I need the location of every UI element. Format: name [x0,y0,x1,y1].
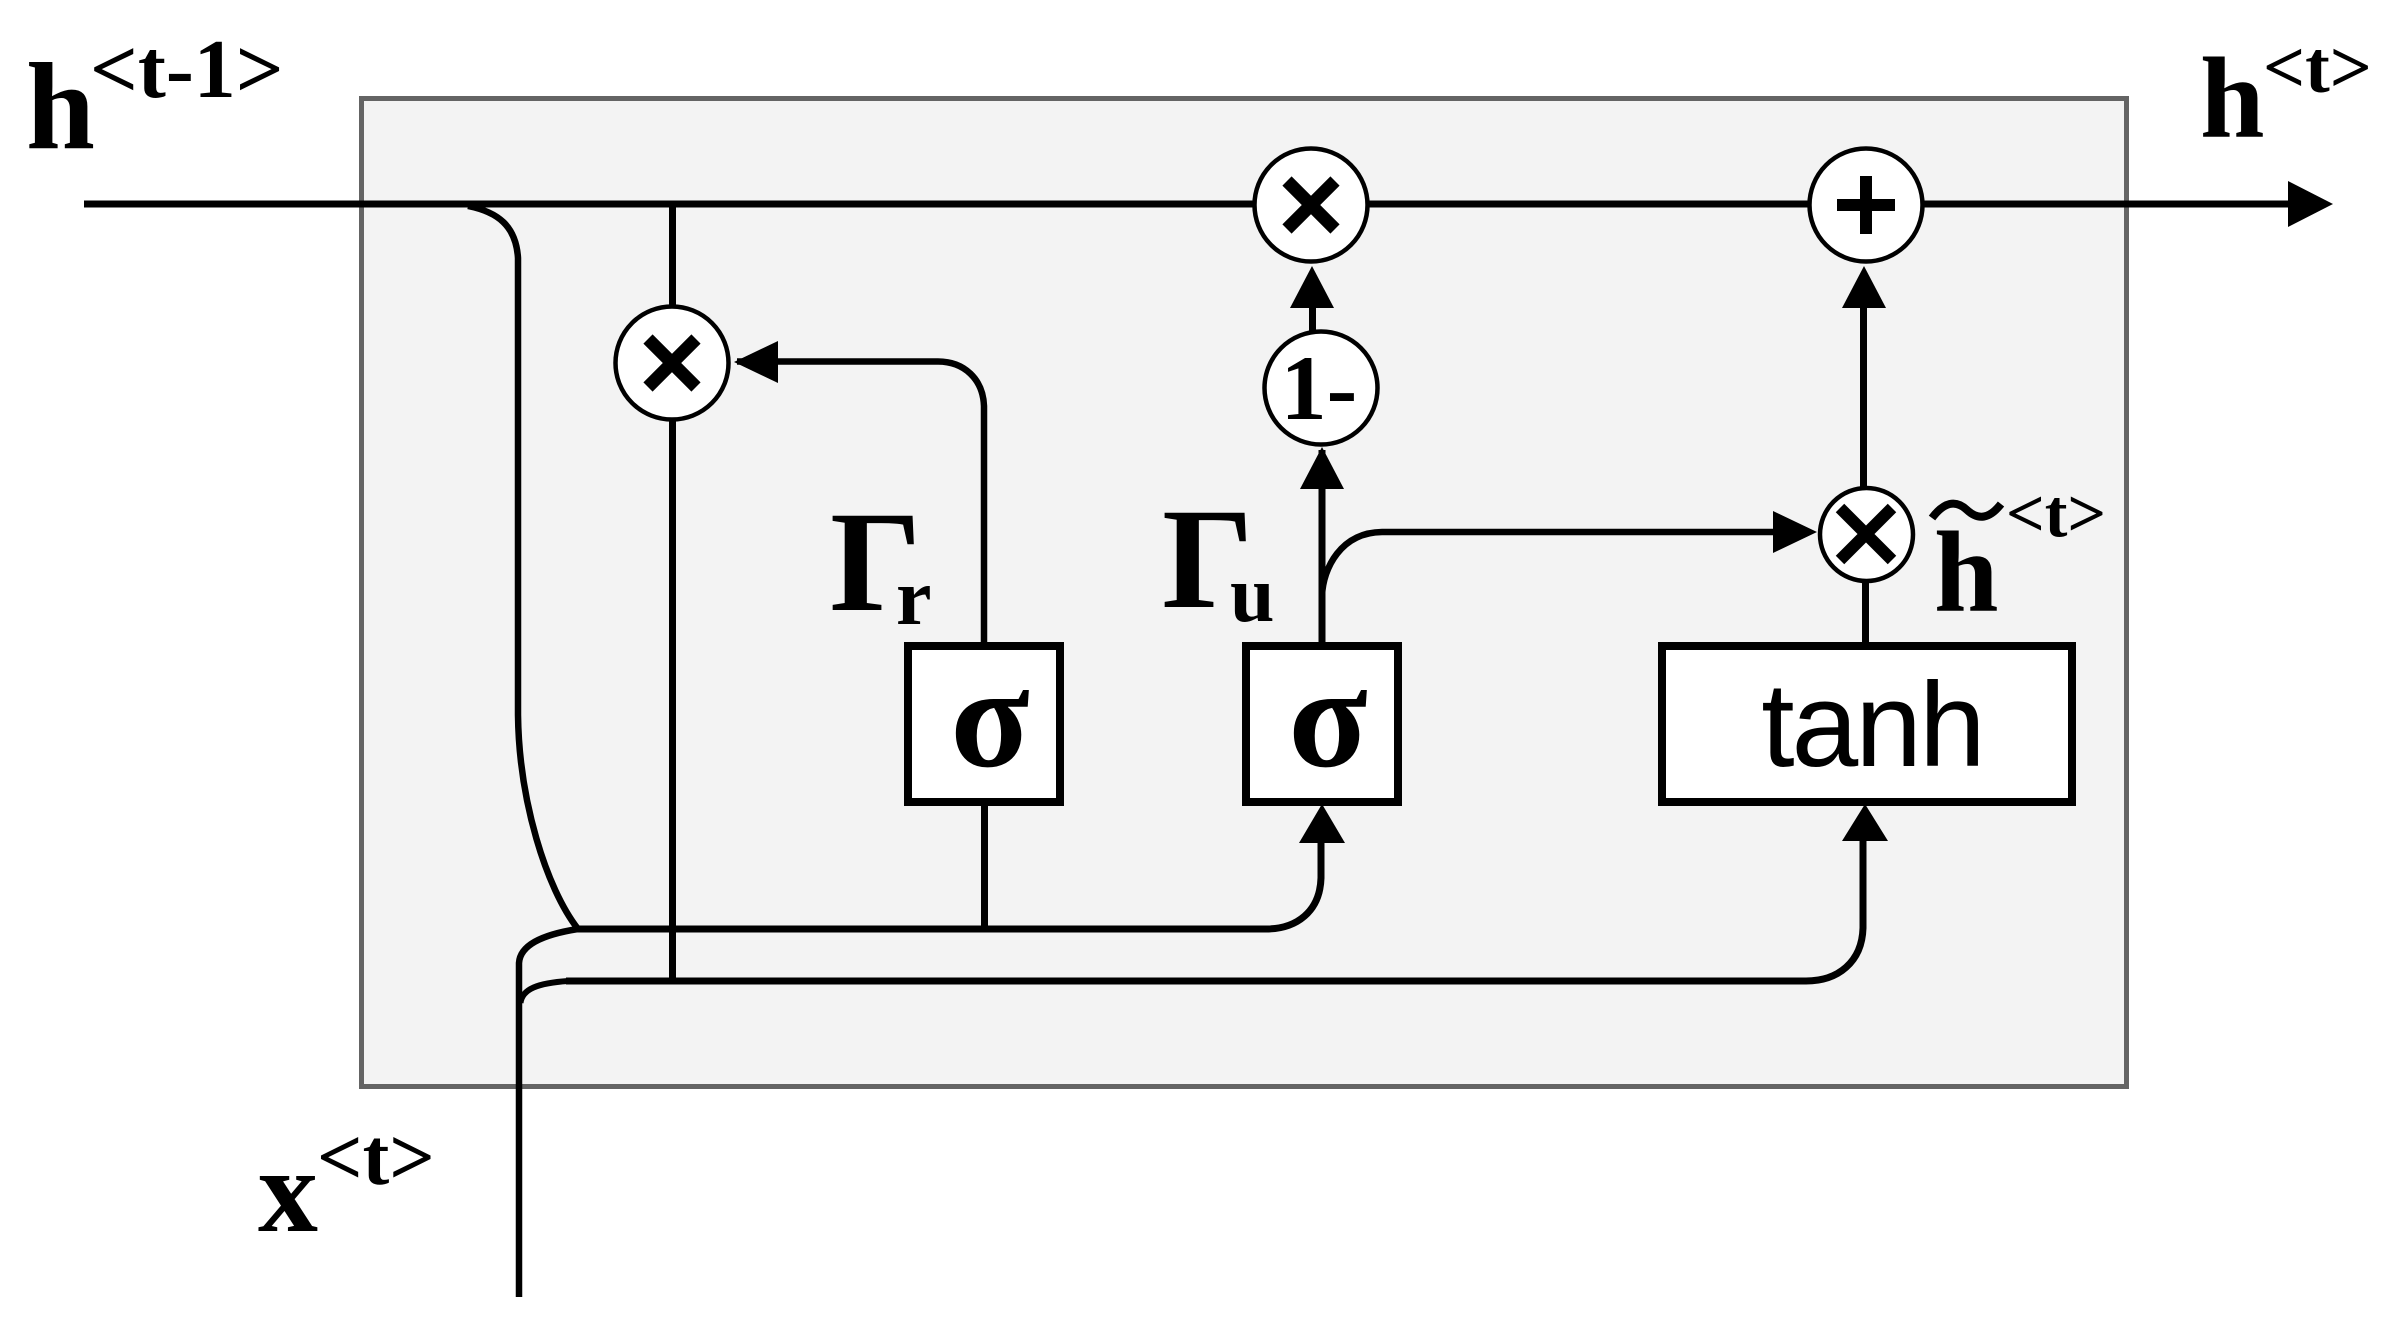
svg-text:σ: σ [1288,636,1367,798]
wire: vertical through multiply M1 lower [669,416,676,984]
arrowhead into M3 [1773,511,1817,553]
svg-text:h: h [2200,35,2265,163]
svg-text:<t>: <t> [2006,475,2106,551]
svg-text:r: r [896,554,932,642]
arrowhead into M1 [734,341,778,383]
wire: line2 to tanh [566,839,1863,981]
wire: vertical through multiply M1 upper [669,204,676,310]
wire: h branch down from main line [468,206,578,929]
svg-text:<t-1>: <t-1> [90,23,284,116]
svg-text:1-: 1- [1281,337,1358,439]
GRU cell body box [362,99,2127,1087]
multiply circle M1 [616,307,729,420]
arrowhead into M2 [1290,266,1334,308]
1- circle [1265,332,1378,445]
svg-text:x: x [258,1124,318,1257]
svg-text:tanh: tanh [1761,658,1983,792]
wire: gamma-r output to M1 [737,362,984,647]
tanh box [1662,646,2072,802]
multiply circle M3 [1820,488,1913,581]
svg-text:<t>: <t> [2263,27,2372,109]
arrowhead into 1- circle [1300,447,1344,489]
plus circle [1810,149,1923,262]
svg-text:u: u [1230,551,1275,639]
wire: M3 to plus [1860,300,1867,488]
arrowhead into plus [1842,266,1886,308]
svg-text:h: h [1934,509,1999,637]
wire: x input vertical [519,929,578,1297]
wire: sigma-u output up [1319,450,1326,646]
multiply circle M2 on main line [1255,149,1368,262]
sigma-r gate box [908,646,1060,802]
wire: sigma-r bottom tap [981,802,988,932]
wire: gamma-u branch to M3 [1322,532,1775,596]
sigma-u gate box [1246,646,1398,802]
wire: 1- to M2 stub [1309,295,1316,332]
wire: main h line [84,201,2289,208]
arrowhead into tanh bottom [1842,804,1888,841]
wire: line1 to sigma gates [576,841,1321,929]
svg-text:h: h [26,38,95,175]
wire: M3 to tanh top [1862,582,1869,646]
label h-tilde <t> [1932,504,2001,518]
svg-text:σ: σ [950,636,1029,798]
wire: x to line2 connector [521,981,569,1003]
arrowhead h<t> output [2288,181,2333,227]
arrowhead into sigma-u bottom [1299,804,1345,843]
svg-text:<t>: <t> [317,1114,435,1202]
